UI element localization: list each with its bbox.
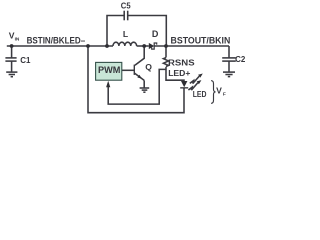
svg-text:L: L [123, 29, 128, 39]
svg-text:C2: C2 [235, 54, 245, 64]
svg-text:F: F [223, 91, 226, 97]
svg-text:RSNS: RSNS [168, 57, 195, 67]
svg-text:PWM: PWM [98, 65, 121, 75]
svg-text:D: D [152, 29, 159, 39]
svg-text:C5: C5 [121, 0, 131, 10]
svg-text:V: V [216, 85, 222, 95]
svg-text:IN: IN [15, 37, 20, 43]
svg-text:BSTOUT/BKIN: BSTOUT/BKIN [171, 36, 231, 46]
svg-text:C1: C1 [20, 55, 30, 65]
svg-text:LED: LED [193, 89, 207, 99]
svg-text:BSTIN/BKLED–: BSTIN/BKLED– [27, 36, 86, 46]
svg-text:Q: Q [145, 62, 152, 72]
svg-text:LED+: LED+ [168, 68, 190, 78]
